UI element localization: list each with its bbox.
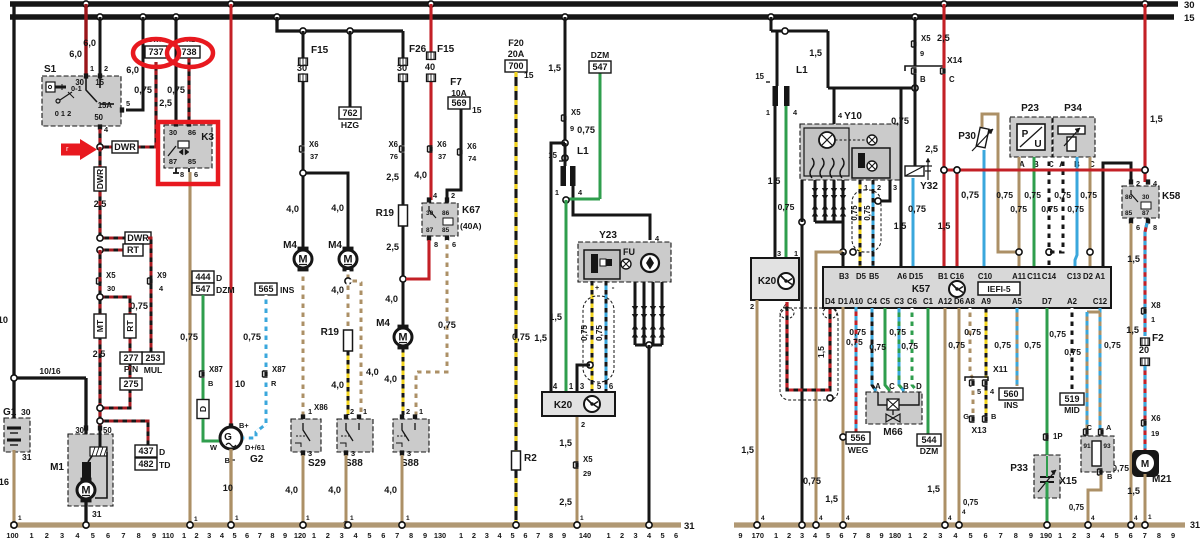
connector X6/37 second [428, 146, 433, 152]
svg-text:556: 556 [850, 433, 865, 443]
svg-text:9: 9 [152, 531, 156, 540]
wire - 762 HZG drop [349, 31, 352, 108]
svg-text:31: 31 [22, 452, 32, 462]
svg-text:A11: A11 [1012, 272, 1027, 281]
svg-text:180: 180 [889, 531, 901, 540]
wires X11 to X13 [972, 386, 975, 416]
svg-text:0,75: 0,75 [438, 320, 456, 330]
svg-text:X6: X6 [1151, 414, 1161, 423]
svg-text:R2: R2 [524, 453, 537, 464]
svg-text:4,0: 4,0 [384, 485, 397, 495]
relay K3 [164, 125, 212, 168]
svg-text:D2: D2 [1083, 272, 1094, 281]
svg-text:X6: X6 [309, 140, 319, 149]
svg-text:7: 7 [258, 531, 262, 540]
svg-text:29: 29 [583, 469, 591, 478]
wire - bus15 to X5/9 (1,5) [562, 14, 568, 20]
svg-text:9: 9 [738, 531, 742, 540]
label 565 INS [255, 283, 277, 295]
wire - S1 pin 4 down (black/red) [98, 129, 101, 147]
svg-text:4,0: 4,0 [285, 485, 298, 495]
svg-text:C: C [949, 75, 955, 84]
svg-text:6,0: 6,0 [83, 38, 96, 48]
svg-text:130: 130 [434, 531, 446, 540]
svg-text:40: 40 [425, 62, 435, 72]
svg-text:87: 87 [426, 227, 434, 234]
wire - M4 right to S88 second (yellow/black 4,0) [402, 348, 405, 415]
thermo switch S88 second [400, 414, 404, 419]
svg-text:1: 1 [555, 188, 559, 197]
svg-text:0,75: 0,75 [595, 325, 604, 341]
svg-text:4,0: 4,0 [328, 485, 341, 495]
wire - K20 pin 4 twisted pair to D4 (red/black) [787, 302, 830, 390]
svg-text:6: 6 [245, 531, 249, 540]
wire - D6 to ground (brown 0,75) [958, 308, 961, 525]
svg-text:A5: A5 [1012, 297, 1023, 306]
svg-text:0,75: 0,75 [901, 341, 918, 351]
wire - C12 to X15 (brown/blue) [1099, 308, 1102, 430]
wire - jumper to ignition components [771, 30, 828, 33]
svg-text:1: 1 [406, 515, 410, 522]
svg-text:1,5: 1,5 [927, 484, 940, 494]
svg-text:1,5: 1,5 [816, 346, 826, 358]
svg-text:2: 2 [45, 531, 49, 540]
svg-text:P33: P33 [1010, 463, 1028, 474]
wire - P23 C to C14 (black/white) [1048, 157, 1051, 267]
svg-text:S88: S88 [345, 458, 363, 469]
svg-text:85: 85 [442, 227, 450, 234]
svg-text:4,0: 4,0 [331, 203, 344, 213]
svg-text:8: 8 [866, 531, 870, 540]
svg-text:2: 2 [195, 531, 199, 540]
svg-text:482: 482 [138, 459, 153, 469]
wire - X9 branch down to 253 MUL [148, 238, 151, 352]
svg-text:9: 9 [1029, 531, 1033, 540]
wire - K67 pin 8 red to fan node [406, 240, 429, 279]
svg-text:86: 86 [188, 128, 196, 137]
svg-text:D: D [198, 406, 208, 412]
svg-text:8: 8 [1014, 531, 1018, 540]
svg-text:B5: B5 [869, 272, 880, 281]
svg-text:6: 6 [839, 531, 843, 540]
wire - S88 first to ground [345, 455, 348, 525]
svg-text:M: M [398, 332, 407, 344]
svg-text:K58: K58 [1162, 191, 1181, 202]
svg-text:X5: X5 [106, 271, 116, 280]
svg-text:560: 560 [1003, 389, 1018, 399]
svg-text:87: 87 [1142, 210, 1150, 217]
svg-text:7: 7 [536, 531, 540, 540]
wire - bus15 to K3 pin 30 (2,5) [173, 14, 179, 20]
glow element X15 [1084, 429, 1089, 435]
motor M21 fan motor [1132, 450, 1159, 477]
svg-text:M21: M21 [1152, 474, 1172, 485]
svg-text:31: 31 [92, 509, 102, 519]
svg-text:4,0: 4,0 [366, 367, 379, 377]
wire - battery feed to G1 [12, 4, 15, 420]
svg-text:16: 16 [0, 477, 9, 487]
svg-text:DZM: DZM [591, 50, 609, 60]
svg-text:30: 30 [169, 128, 177, 137]
alternator G2 [229, 423, 233, 428]
svg-text:B: B [991, 412, 996, 421]
svg-text:1: 1 [312, 531, 316, 540]
wire - bus30 to alternator B+ (red 10) [228, 1, 234, 7]
svg-text:K20: K20 [758, 276, 777, 287]
svg-text:D5: D5 [856, 272, 867, 281]
svg-text:A2: A2 [1067, 297, 1078, 306]
svg-text:1,5: 1,5 [534, 333, 547, 343]
annotation - red arrow pointing at DWR node [61, 139, 97, 160]
svg-text:6: 6 [1129, 531, 1133, 540]
svg-text:D+/61: D+/61 [245, 443, 265, 452]
svg-text:86: 86 [442, 210, 450, 217]
svg-text:6: 6 [452, 240, 456, 249]
svg-text:6: 6 [1136, 223, 1140, 232]
svg-text:6: 6 [984, 531, 988, 540]
svg-text:5: 5 [232, 531, 236, 540]
svg-text:1: 1 [864, 183, 868, 192]
svg-text:30: 30 [397, 63, 407, 73]
svg-text:3: 3 [60, 531, 64, 540]
wire - K58 pin 6 brown to rail [1130, 223, 1133, 525]
svg-text:X6: X6 [437, 140, 447, 149]
svg-text:544: 544 [921, 435, 936, 445]
svg-text:G2: G2 [250, 454, 264, 465]
svg-text:C10: C10 [978, 272, 993, 281]
svg-text:0,75: 0,75 [869, 342, 886, 352]
svg-text:M1: M1 [50, 462, 64, 473]
ground rail left (terminal 31) [10, 522, 681, 527]
svg-text:7: 7 [853, 531, 857, 540]
ground rail left junction nodes [11, 522, 17, 528]
svg-text:762: 762 [342, 108, 357, 118]
svg-text:MID: MID [1064, 405, 1080, 415]
svg-text:9: 9 [920, 49, 924, 58]
svg-text:140: 140 [579, 531, 591, 540]
annotation - red rectangle around K3 [158, 122, 218, 184]
node - K67 output joins fan feed [400, 276, 406, 282]
svg-text:565: 565 [258, 284, 273, 294]
svg-text:G1: G1 [3, 407, 17, 418]
svg-text:F7: F7 [450, 77, 462, 88]
svg-text:0,75: 0,75 [1010, 204, 1027, 214]
svg-text:L1: L1 [577, 146, 589, 157]
annotation - red ellipse around 738 [167, 39, 213, 67]
svg-text:2,5: 2,5 [386, 242, 399, 252]
svg-text:3: 3 [351, 449, 355, 458]
wire - red horizontal distribution [944, 168, 1145, 171]
wire - bus15 to X5/9 right [912, 14, 918, 20]
svg-text:1,5: 1,5 [1150, 114, 1163, 124]
node - M4 middle splits to S88 pins [347, 270, 350, 281]
svg-text:Y23: Y23 [599, 230, 617, 241]
node - C16 branch [954, 167, 960, 173]
resistor R2 on circuit 700 [512, 451, 521, 470]
svg-text:1,5: 1,5 [1126, 325, 1139, 335]
inductor L1 left [562, 155, 568, 161]
svg-text:X11: X11 [993, 364, 1008, 374]
wire - P33 to ground [1046, 482, 1049, 525]
node - pair shield [827, 395, 833, 401]
svg-text:1: 1 [29, 531, 33, 540]
svg-text:85: 85 [188, 157, 196, 166]
svg-text:1: 1 [194, 516, 198, 523]
svg-text:569: 569 [451, 98, 466, 108]
svg-text:9: 9 [1171, 531, 1175, 540]
svg-text:A10: A10 [849, 297, 864, 306]
svg-text:5: 5 [977, 387, 981, 396]
svg-text:5: 5 [367, 531, 371, 540]
svg-text:C6: C6 [907, 297, 918, 306]
svg-text:20A: 20A [508, 49, 525, 59]
svg-text:8: 8 [1153, 223, 1157, 232]
svg-text:A: A [1106, 423, 1112, 432]
svg-text:K3: K3 [201, 132, 214, 143]
wire - L1 pin 1 to K20 pin 3 (1,5) [774, 106, 777, 258]
svg-text:C5: C5 [880, 297, 891, 306]
wire - battery bus 30 (top horizontal) [10, 1, 1178, 6]
wire - G1 to ground rail (16 brown) [12, 450, 15, 525]
wire - Y10 pin 3 tap [878, 180, 890, 201]
svg-text:0,75: 0,75 [863, 205, 872, 221]
svg-text:2: 2 [104, 64, 108, 73]
svg-text:0,75: 0,75 [1069, 503, 1085, 512]
wire - bus15 to S1 pin 5 (6,0) [140, 14, 146, 20]
wire - D+ exciter wire (green) to connector X87 [202, 295, 205, 371]
wire - F20 circuit 700 to ground rail (black/yellow) [514, 72, 517, 525]
svg-text:110: 110 [162, 531, 174, 540]
svg-text:FU: FU [623, 247, 635, 257]
svg-text:5: 5 [126, 99, 130, 108]
svg-text:DZM: DZM [216, 285, 235, 295]
svg-text:10: 10 [0, 315, 8, 325]
node - 10/16 branch junction [14, 376, 86, 379]
svg-text:1,5: 1,5 [559, 438, 572, 448]
svg-text:6,0: 6,0 [126, 65, 139, 75]
wire - X14 C down (red) [942, 74, 945, 267]
svg-text:A: A [875, 382, 881, 391]
svg-text:INS: INS [1004, 400, 1019, 410]
node - branch to 437/482 labels [100, 421, 148, 446]
svg-text:3: 3 [893, 183, 897, 192]
svg-text:547: 547 [592, 62, 607, 72]
svg-text:30: 30 [1142, 194, 1150, 201]
svg-text:3: 3 [634, 531, 638, 540]
connector X6/74 [458, 149, 463, 155]
svg-text:8: 8 [180, 170, 184, 179]
svg-text:0,75: 0,75 [1054, 190, 1071, 200]
wire - P30 to C10 (blue) [983, 150, 986, 267]
svg-text:6: 6 [523, 531, 527, 540]
wire - K3 pin 6 to ground rail (brown) [188, 172, 191, 525]
relay K67 fan relay [427, 197, 431, 202]
svg-text:D1: D1 [838, 297, 849, 306]
svg-text:0,75: 0,75 [803, 476, 821, 486]
wire - X14 B down to Y32 (0,75) [914, 74, 917, 166]
svg-text:9: 9 [562, 531, 566, 540]
svg-text:C16: C16 [950, 272, 965, 281]
svg-text:2,5: 2,5 [94, 199, 107, 209]
svg-text:0,75: 0,75 [849, 327, 866, 337]
svg-text:4: 4 [846, 515, 850, 522]
svg-text:HZG: HZG [341, 120, 359, 130]
svg-text:2: 2 [326, 531, 330, 540]
svg-text:8: 8 [1157, 531, 1161, 540]
svg-text:1: 1 [306, 515, 310, 522]
svg-text:F15: F15 [437, 44, 455, 55]
svg-text:3: 3 [1086, 531, 1090, 540]
twisted pair capsule Y23-K20 [583, 296, 614, 382]
svg-text:DWR: DWR [114, 142, 136, 152]
antenna amplifier Y32 [905, 166, 924, 176]
wire - bus30 to S1 pin 1 (6,0 red) [83, 1, 89, 7]
svg-text:B: B [920, 75, 926, 84]
wire - Y10 pin 4 feed [833, 88, 836, 124]
svg-text:D: D [159, 447, 165, 457]
svg-text:2,5: 2,5 [937, 33, 950, 43]
svg-text:1: 1 [1058, 531, 1062, 540]
svg-text:3: 3 [340, 531, 344, 540]
svg-text:0,75: 0,75 [1064, 347, 1081, 357]
svg-text:4: 4 [1134, 515, 1138, 522]
wire - bus30 to X14 C (red 2,5) [941, 1, 947, 7]
svg-text:4: 4 [553, 382, 558, 391]
wire - K67 pin 6 to S88 (brown/white 0,75) [416, 240, 447, 415]
svg-text:6,0: 6,0 [69, 49, 82, 59]
wire - L1 pin 4 to Y23 pump (black) [573, 186, 650, 240]
svg-text:76: 76 [390, 152, 398, 161]
svg-text:0,75: 0,75 [130, 301, 148, 311]
svg-text:C1: C1 [923, 297, 934, 306]
svg-text:M4: M4 [283, 240, 297, 251]
svg-text:F15: F15 [311, 45, 329, 56]
svg-text:5: 5 [826, 531, 830, 540]
svg-text:X6: X6 [388, 140, 398, 149]
control unit K20 (fuel pump relay) [542, 392, 615, 416]
svg-text:DWR: DWR [127, 233, 149, 243]
svg-text:170: 170 [752, 531, 764, 540]
svg-text:K67: K67 [462, 205, 481, 216]
svg-text:15: 15 [524, 70, 534, 80]
svg-text:31: 31 [684, 521, 695, 532]
svg-text:0,75: 0,75 [512, 332, 530, 342]
svg-text:X5: X5 [921, 34, 931, 43]
node - injector common ground junction [646, 342, 652, 348]
svg-text:6: 6 [674, 531, 678, 540]
svg-text:700: 700 [508, 61, 523, 71]
svg-text:S1: S1 [44, 64, 57, 75]
svg-text:4: 4 [948, 515, 952, 522]
svg-text:4,0: 4,0 [414, 170, 427, 180]
wire - G2 B- to ground rail (brown 10) [229, 449, 232, 525]
svg-text:737: 737 [148, 47, 163, 57]
svg-text:9: 9 [880, 531, 884, 540]
svg-text:2: 2 [451, 191, 455, 200]
fuse F15 40A (red feed) [428, 1, 434, 7]
svg-text:6: 6 [609, 382, 614, 391]
svg-text:1,5: 1,5 [549, 312, 562, 322]
svg-text:P34: P34 [1064, 103, 1082, 114]
svg-text:D4: D4 [825, 297, 836, 306]
svg-text:253: 253 [145, 353, 160, 363]
svg-text:0,75: 0,75 [580, 325, 589, 341]
svg-text:0,75: 0,75 [996, 190, 1013, 200]
svg-text:G: G [963, 412, 969, 421]
wire - brown ground branch to rail [816, 252, 843, 525]
svg-text:2: 2 [406, 407, 410, 416]
wire - S88 second to ground [401, 455, 404, 525]
svg-text:C4: C4 [867, 297, 878, 306]
svg-text:2,5: 2,5 [386, 172, 399, 182]
svg-text:3: 3 [485, 531, 489, 540]
svg-text:15: 15 [755, 72, 764, 81]
svg-text:0,75: 0,75 [846, 337, 863, 347]
wire - X15 B to ground [1088, 475, 1101, 525]
svg-text:RT: RT [125, 320, 135, 332]
svg-text:10: 10 [223, 483, 233, 493]
svg-text:4,0: 4,0 [331, 380, 344, 390]
svg-text:1,5: 1,5 [741, 445, 754, 455]
svg-text:-: - [612, 282, 615, 292]
svg-text:0,75: 0,75 [994, 340, 1011, 350]
svg-text:15: 15 [1184, 13, 1195, 24]
svg-text:100: 100 [6, 531, 18, 540]
wire - A5 to label 560 INS (brown/blue) [1016, 308, 1019, 386]
wire - C4 to M66 A (black/blue) [872, 308, 876, 391]
svg-text:X86: X86 [314, 403, 329, 412]
svg-text:8: 8 [549, 531, 553, 540]
svg-text:37: 37 [438, 152, 446, 161]
wire - R19 to M4 right [402, 226, 405, 326]
wire - M1 pin 31 to ground rail [84, 499, 87, 525]
svg-text:5: 5 [968, 531, 972, 540]
svg-text:1: 1 [308, 407, 312, 416]
svg-text:5: 5 [597, 382, 602, 391]
wire - ignition bus 15 (second horizontal) [10, 14, 1174, 19]
svg-text:5: 5 [1115, 531, 1119, 540]
svg-text:87: 87 [169, 157, 177, 166]
svg-text:C3: C3 [894, 297, 905, 306]
svg-text:0,75: 0,75 [1067, 204, 1084, 214]
connector X14 double [905, 66, 944, 71]
svg-text:4: 4 [1091, 515, 1095, 522]
svg-text:50: 50 [94, 113, 103, 122]
svg-text:X5: X5 [583, 455, 593, 464]
svg-text:4: 4 [819, 515, 823, 522]
svg-text:2: 2 [472, 531, 476, 540]
svg-text:K20: K20 [554, 400, 573, 411]
svg-text:W: W [210, 443, 217, 452]
svg-text:M: M [343, 254, 352, 266]
wire - M4 left to S29 (brown/white 4,0) [302, 272, 305, 415]
svg-text:1,5: 1,5 [1127, 486, 1140, 496]
svg-text:6: 6 [381, 531, 385, 540]
wire - A2 to label 519 MID (black/white) [1071, 308, 1074, 392]
svg-text:1,5: 1,5 [938, 221, 951, 231]
svg-text:1: 1 [569, 382, 574, 391]
node - branch to DWR label and X9 [100, 237, 148, 240]
svg-text:MT: MT [95, 319, 105, 332]
svg-text:S88: S88 [401, 458, 419, 469]
svg-text:9: 9 [570, 124, 574, 133]
svg-text:0,75: 0,75 [964, 327, 981, 337]
wire - K20 right pin 2 to ground (brown) [756, 300, 759, 525]
svg-text:A1: A1 [1095, 272, 1106, 281]
wire - DZM green to K20 pin 1 [599, 73, 602, 199]
svg-text:0,75: 0,75 [1024, 340, 1041, 350]
svg-text:1: 1 [350, 515, 354, 522]
